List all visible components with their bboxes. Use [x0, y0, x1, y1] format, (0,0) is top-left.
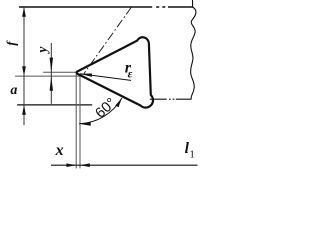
- dimension x arrow left: [80, 163, 90, 167]
- dimension y arrow up: [50, 76, 53, 91]
- wire: shank bottom phantom line dash-dot-dot: [150, 98, 192, 100]
- 60 degree arc: [79, 98, 122, 124]
- dimension x arrow right: [66, 163, 76, 167]
- arc arrow at vertical line: [81, 122, 91, 125]
- extension line horizontal lower: [15, 75, 80, 77]
- node P: extension line vertical left: [75, 72, 77, 168]
- dimension y line: [50, 43, 52, 104]
- dimension f arrow down / a arrow top: [22, 66, 26, 76]
- wire: wavy break line right side: [191, 0, 196, 99]
- svg-text:y: y: [35, 46, 50, 55]
- wire: dash-dot centerline through insert nose: [84, 7, 132, 74]
- dimension a arrow up from below: [22, 105, 26, 115]
- wire: lower contour line: [17, 104, 92, 106]
- svg-text:x: x: [55, 142, 64, 159]
- dimension f arrow up: [22, 7, 26, 17]
- svg-text:a: a: [10, 83, 17, 98]
- dimension f line: [23, 7, 25, 125]
- node P: extension line horizontal upper: [43, 71, 77, 73]
- extension line vertical right: [79, 76, 81, 168]
- wire: workpiece top surface line with dash-dot-dot break: [19, 6, 193, 8]
- dimension x / l1 baseline: [51, 164, 198, 166]
- dimension y arrow down: [50, 58, 53, 73]
- arc arrow at insert edge: [115, 98, 122, 107]
- r_epsilon leader arrow: [80, 74, 131, 81]
- insert outline: [77, 37, 153, 107]
